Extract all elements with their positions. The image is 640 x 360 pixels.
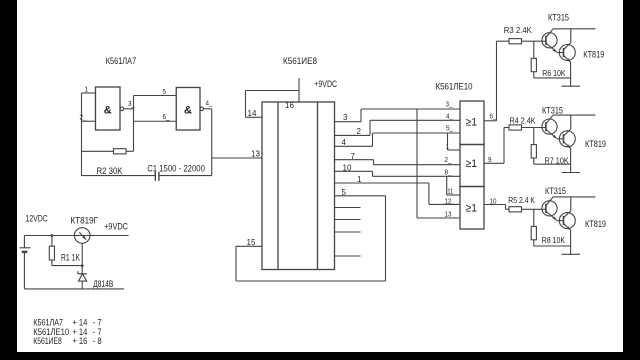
- NAND gate U1.1 body: [96, 87, 121, 130]
- wire: pin 1 to gate D2.3 input 12: [429, 203, 460, 205]
- svg-text:13: 13: [251, 150, 260, 159]
- wire: feedback left vertical (pins 1,2 node): [81, 93, 83, 176]
- collector rail (stage R4): [553, 114, 595, 116]
- wire: R1 to zener/base node: [52, 265, 82, 267]
- resistor R7 body: [531, 145, 536, 158]
- svg-text:6_: 6_: [163, 112, 171, 121]
- junction dot at zener top node: [81, 264, 84, 267]
- battery short plate: [22, 251, 28, 253]
- U2 pin 15 reset wire: [236, 245, 262, 247]
- U1.1 pin 3 output wire: [124, 108, 134, 110]
- emitter terminal bar (stage R5): [562, 253, 581, 255]
- svg-text:11_: 11_: [447, 186, 457, 195]
- КТ819 base lead (stage R4): [557, 138, 564, 140]
- wire: pin 10 to gate D2.2 input 8: [373, 175, 461, 177]
- resistor R1 bottom lead: [51, 260, 53, 266]
- resistor R4 right lead to transistor base: [522, 127, 542, 129]
- wire: pin 10 dropper: [372, 171, 374, 176]
- U1.2 output inversion bubble: [200, 107, 204, 111]
- U2 pin 2 stub: [335, 134, 371, 136]
- wire: pin 1 dropper: [428, 183, 430, 204]
- resistor R2 left lead: [82, 150, 114, 152]
- resistor R5 left lead: [506, 208, 510, 210]
- resistor R4 body: [509, 125, 522, 130]
- КТ819 emitter with arrow (stage R4): [564, 142, 571, 149]
- КТ315 collector (stage R4): [546, 115, 553, 124]
- svg-text:3_: 3_: [128, 99, 136, 108]
- wire: reset loop right vertical from pin 5: [385, 196, 387, 281]
- wire: bottom RC wire right of C1: [159, 175, 212, 177]
- wire: +9VDC output from emitter: [90, 235, 129, 237]
- wire: pin 4 riser: [372, 133, 374, 146]
- wire: gate output riser to stage R5: [505, 205, 507, 210]
- pass transistor КТ819Г body circle: [74, 228, 90, 244]
- svg-text:R6 10K: R6 10K: [542, 68, 566, 78]
- svg-text:12VDC: 12VDC: [26, 214, 49, 224]
- wire: pin 3 riser: [360, 109, 362, 122]
- D2.3 input 11 wire: [447, 194, 460, 196]
- svg-text:R2 30K: R2 30K: [97, 166, 123, 176]
- КТ819 collector (stage R4): [564, 129, 571, 136]
- svg-text:КТ315: КТ315: [548, 13, 569, 23]
- wire: gate output riser to stage R3: [496, 41, 498, 121]
- wire: node 13 branch vertical to gate D2.3 input 13: [416, 109, 418, 218]
- emitter terminal bar (stage R3): [562, 85, 581, 87]
- wire: +9V horizontal to pin 16: [246, 90, 300, 92]
- svg-text:Д814В: Д814В: [93, 279, 113, 289]
- junction dot at R1 top: [51, 234, 54, 237]
- svg-text:К561ЛЕ10: К561ЛЕ10: [436, 82, 473, 92]
- resistor R8 body: [531, 226, 536, 239]
- svg-text:4_: 4_: [446, 111, 454, 120]
- U2 unused output stub c: [335, 231, 361, 233]
- wire: gate output riser to stage R4: [503, 128, 505, 164]
- svg-text:КТ315: КТ315: [542, 106, 563, 116]
- U2 pin 5 wire: [335, 195, 386, 197]
- wire: reset loop bottom horizontal: [236, 280, 386, 282]
- svg-text:C1 1500 - 22000: C1 1500 - 22000: [147, 164, 205, 174]
- transistor КТ315 body circle (stage R5): [542, 201, 557, 216]
- svg-text:&: &: [184, 105, 192, 117]
- U2 pin 10 stub: [335, 170, 373, 172]
- wire: pin 4 to gate D2.1 input 5: [373, 132, 461, 134]
- battery negative lead: [23, 252, 25, 289]
- resistor R5 right lead to transistor base: [522, 208, 542, 210]
- U1.1 pin 1 wire: [82, 92, 96, 94]
- svg-text:К561ИЕ8: К561ИЕ8: [283, 56, 317, 66]
- КТ819 emitter with arrow (stage R3): [564, 55, 571, 62]
- resistor R5 body: [509, 207, 522, 212]
- КТ819 base lead (stage R3): [557, 52, 564, 54]
- svg-text:5_: 5_: [446, 123, 454, 132]
- wire: bottom RC wire left of C1: [82, 175, 156, 177]
- wire: U1.1 output to U1.2 inputs vertical bus: [133, 96, 135, 152]
- svg-text:КТ819Г: КТ819Г: [70, 216, 98, 226]
- svg-text:+9VDC: +9VDC: [314, 79, 337, 89]
- U1.2 pin 5 input wire: [134, 95, 177, 97]
- U2 left service field divider: [277, 102, 279, 270]
- КТ819Г base lead down: [81, 243, 83, 265]
- U2 right service field divider: [317, 102, 319, 270]
- svg-text:4: 4: [342, 138, 347, 147]
- КТ315 emitter with arrow (stage R4): [546, 129, 557, 138]
- resistor R2 right lead: [126, 150, 134, 152]
- svg-text:3: 3: [343, 113, 348, 122]
- U1.2 pin 4 output wire: [204, 108, 212, 110]
- U2 pin 1 stub: [335, 182, 429, 184]
- svg-text:R8 10K: R8 10K: [542, 235, 566, 245]
- svg-text:R4 2.4K: R4 2.4K: [510, 116, 536, 126]
- svg-text:3_: 3_: [446, 99, 454, 108]
- svg-text:≥1: ≥1: [466, 202, 478, 214]
- КТ819 collector (stage R5): [564, 211, 571, 218]
- zener top lead: [81, 266, 83, 274]
- transistor КТ819 body circle (stage R3): [559, 45, 575, 61]
- D2.2 input 1 wire: [448, 149, 461, 151]
- resistor R7 top lead (stage R4): [533, 128, 535, 145]
- svg-text:R1 1K: R1 1K: [61, 253, 80, 263]
- emitter terminal bar (stage R4): [562, 172, 581, 174]
- U2 pin 13 clock wire from oscillator: [212, 157, 262, 159]
- wire: 12V positive rail to transistor: [24, 235, 74, 237]
- КТ315 emitter with arrow (stage R5): [546, 211, 557, 220]
- wire: R7 to emitter line: [534, 163, 571, 165]
- zener diode Д814В cathode bar: [78, 273, 87, 275]
- wire: pin 7 dropper: [373, 160, 375, 165]
- svg-text:4_: 4_: [206, 99, 214, 108]
- КТ315 collector (stage R5): [546, 197, 553, 206]
- NOR gate D2.2 body: [460, 145, 484, 187]
- svg-text:≥1: ≥1: [466, 116, 478, 128]
- svg-text:R5 2.4 K: R5 2.4 K: [508, 195, 535, 205]
- resistor R3 left lead: [497, 40, 510, 42]
- battery long plate: [20, 247, 31, 249]
- transistor КТ315 body circle (stage R4): [542, 119, 557, 134]
- wire: pin 3 to gate D2.1 input 3: [361, 108, 460, 110]
- svg-text:КТ315: КТ315: [545, 186, 566, 196]
- wire: reset loop left vertical: [235, 246, 237, 281]
- U1.1 output inversion bubble: [120, 107, 124, 111]
- resistor R6 bottom lead: [533, 72, 535, 78]
- U2 pin 4 stub: [335, 145, 373, 147]
- resistor R6 body: [531, 58, 536, 71]
- resistor R2 body: [114, 149, 127, 154]
- wire: tie gate input 5 to input 1: [447, 133, 449, 150]
- battery positive lead: [23, 236, 25, 248]
- svg-text:2_: 2_: [80, 113, 88, 122]
- КТ819 base bar (stage R5): [563, 216, 565, 225]
- U2 pin 7 stub: [335, 159, 374, 161]
- svg-text:КТ819: КТ819: [583, 50, 604, 60]
- U2 pin 3 stub: [335, 121, 362, 123]
- D2.2 output wire: [484, 162, 504, 164]
- svg-text:К561ИЕ8: К561ИЕ8: [33, 336, 62, 346]
- svg-text:КТ819: КТ819: [585, 139, 606, 149]
- wire: branch to gate D2.3 input 13 horizontal: [417, 217, 460, 219]
- КТ819 emitter with arrow (stage R5): [564, 223, 571, 230]
- svg-text:2: 2: [357, 127, 362, 136]
- transistor КТ819 body circle (stage R5): [559, 213, 575, 229]
- wire: U1.2 output vertical drop: [211, 109, 213, 176]
- КТ819 emitter wire down (stage R5): [570, 230, 572, 254]
- КТ819 base bar (stage R3): [563, 48, 565, 57]
- U2 unused output stub a: [335, 207, 361, 209]
- NOR gate D2.3 body: [460, 187, 484, 230]
- svg-text:15: 15: [247, 238, 256, 247]
- wire: pin 7 to gate D2.2 input 2: [374, 164, 461, 166]
- svg-text:R3 2.4K: R3 2.4K: [504, 25, 532, 35]
- wire: pin 2 riser: [369, 120, 371, 135]
- svg-text:8_: 8_: [445, 167, 453, 176]
- svg-text:12_: 12_: [445, 196, 456, 205]
- NAND gate U1.2 body: [176, 88, 200, 131]
- svg-text:&: &: [104, 105, 112, 117]
- wire: bottom return rail: [24, 288, 124, 290]
- svg-text:13_: 13_: [445, 209, 456, 218]
- transistor КТ819 body circle (stage R4): [559, 131, 575, 147]
- resistor R3 right lead to transistor base: [522, 40, 542, 42]
- U2 unused output stub d: [335, 255, 361, 257]
- svg-text:5_: 5_: [163, 87, 171, 96]
- resistor R7 bottom lead: [533, 158, 535, 164]
- КТ819Г internal emitter arrow: [79, 232, 86, 239]
- КТ819 collector wire to rail (stage R4): [570, 115, 572, 129]
- КТ819 collector wire to rail (stage R5): [570, 197, 572, 211]
- КТ819 collector wire to rail (stage R3): [570, 29, 572, 43]
- wire: R6 to emitter line: [534, 77, 571, 79]
- КТ819Г collector-emitter path through circle: [74, 235, 90, 237]
- КТ315 base lead (stage R5): [542, 208, 546, 210]
- collector rail (stage R5): [553, 196, 595, 198]
- NOR gate D2.1 body: [460, 101, 484, 145]
- zener diode Д814В triangle: [78, 274, 86, 281]
- КТ315 base lead (stage R3): [542, 40, 546, 42]
- resistor R1 top lead: [51, 236, 53, 247]
- КТ819 base lead (stage R5): [557, 220, 564, 222]
- resistor R4 left lead: [504, 127, 509, 129]
- svg-text:16: 16: [285, 101, 294, 110]
- zener bottom lead: [81, 281, 83, 289]
- КТ819 base bar (stage R4): [563, 134, 565, 143]
- collector rail (stage R3): [553, 28, 595, 30]
- КТ315 emitter with arrow (stage R3): [546, 43, 557, 52]
- U1.2 pin 6 input wire: [134, 120, 177, 122]
- wire: tie gate input 8 to input 11: [446, 176, 448, 195]
- wire: pin 2 to gate D2.1 input 4: [370, 119, 460, 121]
- resistor R1 body: [49, 246, 54, 260]
- wire: R8 to emitter line: [534, 245, 571, 247]
- capacitor C1 left plate: [154, 172, 156, 181]
- resistor R6 top lead (stage R3): [533, 41, 535, 58]
- D2.3 output wire: [484, 204, 506, 206]
- U2 unused output stub b: [335, 219, 361, 221]
- D2.1 output wire: [484, 120, 497, 122]
- U1.1 pin 2 wire: [82, 120, 96, 122]
- wire: +9V vertical to pin 14: [245, 91, 247, 118]
- svg-text:1_: 1_: [85, 85, 93, 94]
- U2 pin 14 wire: [246, 116, 263, 118]
- resistor R8 bottom lead: [533, 240, 535, 246]
- svg-text:2_: 2_: [445, 155, 453, 164]
- svg-text:14: 14: [248, 109, 257, 118]
- КТ819 collector (stage R3): [564, 43, 571, 50]
- КТ315 base bar (stage R5): [545, 204, 547, 213]
- counter U2 К561ИЕ8 body: [262, 102, 335, 270]
- КТ819 emitter wire down (stage R3): [570, 62, 572, 86]
- КТ819 emitter wire down (stage R4): [570, 148, 572, 172]
- capacitor C1 right plate: [158, 172, 160, 181]
- svg-text:К561ЛА7: К561ЛА7: [106, 56, 137, 66]
- U2 pin 16 supply stub: [298, 78, 300, 102]
- КТ315 collector (stage R3): [546, 29, 553, 38]
- transistor КТ315 body circle (stage R3): [542, 33, 557, 48]
- svg-text:+9VDC: +9VDC: [104, 222, 128, 232]
- svg-text:КТ819: КТ819: [585, 219, 606, 229]
- КТ315 base bar (stage R3): [545, 36, 547, 45]
- svg-text:≥1: ≥1: [466, 158, 478, 170]
- КТ315 base bar (stage R4): [545, 122, 547, 131]
- resistor R8 top lead (stage R5): [533, 209, 535, 226]
- svg-text:+ 16: + 16: [72, 336, 87, 346]
- КТ315 base lead (stage R4): [542, 127, 546, 129]
- resistor R3 body: [509, 39, 522, 44]
- svg-text:9_: 9_: [488, 155, 496, 164]
- svg-text:- 8: - 8: [93, 336, 102, 346]
